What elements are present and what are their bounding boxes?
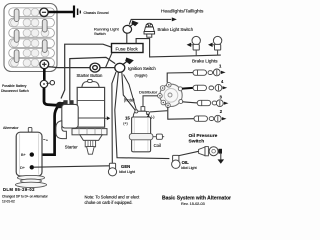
wire ignition switch to GEN idiot light [112, 72, 116, 163]
battery negative terminal [40, 8, 48, 16]
brake light bulb right [208, 36, 222, 55]
svg-text:B+: B+ [21, 153, 27, 157]
spark plug wire 1 [167, 73, 193, 83]
svg-text:Possible Battery: Possible Battery [2, 84, 27, 88]
wire fuse block to brake light switch and brake lights [136, 39, 221, 57]
svg-text:(note): (note) [124, 97, 135, 102]
ignition coil [129, 107, 164, 152]
svg-text:Distributor: Distributor [139, 89, 158, 94]
alternator base pulley [17, 175, 44, 180]
cable junction blob [56, 102, 64, 108]
oil pressure switch [199, 147, 225, 164]
wire solenoid to alternator B+ (thick) [33, 106, 58, 155]
spark plug 4 assembly [193, 84, 222, 91]
wire fuse block to starter button wire [106, 53, 112, 68]
wire ignition switch to coil terminal 15 (second lead) [124, 75, 137, 111]
alternator + mark [43, 138, 45, 140]
svg-text:OIL: OIL [182, 160, 190, 165]
svg-text:Coil: Coil [154, 143, 161, 148]
svg-text:Fuse Block: Fuse Block [116, 47, 139, 52]
wire starter button to ignition switch [100, 67, 116, 69]
chassis ground [74, 6, 80, 18]
wire distributor king lead to coil [143, 96, 158, 108]
svg-text:Brake Lights: Brake Lights [192, 59, 218, 64]
starter spline [85, 140, 95, 146]
wire coil terminal 1 to distributor points [150, 111, 168, 112]
wire fuse block feed (left vertical) [61, 44, 112, 98]
battery positive terminal [40, 60, 49, 69]
running light switch [123, 20, 139, 33]
wire positive cable to starter solenoid [44, 88, 65, 106]
svg-text:Starter: Starter [65, 145, 78, 150]
spark plug 2 assembly [194, 115, 221, 122]
starter solenoid [56, 100, 78, 138]
wire ignition switch to oil pressure circuit [115, 72, 170, 158]
svg-text:(toggle): (toggle) [135, 74, 149, 78]
ignition switch [115, 58, 134, 73]
spark plug 3 assembly [197, 100, 223, 107]
wire battery negative to chassis ground [48, 11, 73, 14]
svg-text:15: 15 [125, 115, 130, 120]
svg-text:Alternator: Alternator [3, 126, 19, 130]
wire OIL light to oil pressure switch [179, 151, 199, 155]
solenoid foot [56, 121, 67, 139]
svg-text:DLM 05-29-02: DLM 05-29-02 [3, 187, 35, 192]
svg-text:Chassis Ground: Chassis Ground [84, 11, 109, 15]
spark plug 1 assembly [193, 69, 220, 76]
wire running light switch to headlights (arrow) [129, 19, 171, 24]
coil mounting band and condenser [129, 134, 153, 140]
wire fuse block to running light switch [126, 33, 128, 43]
svg-text:Starter Button: Starter Button [77, 73, 104, 78]
svg-text:Disconnect Switch: Disconnect Switch [1, 89, 29, 93]
svg-text:D+: D+ [20, 166, 26, 170]
wire ignition feed (second vertical) [70, 57, 115, 100]
OIL idiot light [172, 155, 180, 168]
battery disconnect switch [40, 80, 54, 87]
svg-text:GEN: GEN [121, 164, 130, 169]
svg-text:Switch: Switch [94, 31, 106, 36]
starter motor [72, 79, 110, 154]
starter output arrow [105, 117, 107, 119]
svg-text:(+): (+) [123, 121, 128, 125]
svg-text:choke on carb if equipped.: choke on carb if equipped. [85, 200, 133, 205]
svg-text:Switch: Switch [189, 138, 205, 144]
brake light switch [144, 23, 155, 37]
distributor [158, 83, 183, 108]
svg-text:Rev. 15-02-03: Rev. 15-02-03 [181, 202, 205, 206]
svg-text:Ignition Switch: Ignition Switch [128, 66, 156, 71]
svg-text:Idiot Light: Idiot Light [181, 166, 197, 170]
spark plug wire 2 [168, 107, 194, 120]
svg-text:12-01-02: 12-01-02 [2, 199, 15, 203]
svg-text:Headlights/Taillights: Headlights/Taillights [161, 9, 204, 15]
starter button [90, 63, 100, 72]
wire alternator D+ to GEN idiot light [33, 166, 109, 167]
svg-text:Changed DP to D+ on Alternator: Changed DP to D+ on Alternator [2, 194, 49, 198]
svg-text:(-): (-) [151, 115, 155, 119]
wire battery to starter button [48, 67, 90, 68]
fuse block [112, 44, 144, 53]
spark plug wire 4 (thick) [182, 87, 193, 90]
spark plug wire 3 [182, 102, 197, 103]
starter bell [80, 135, 102, 141]
battery B1 [4, 4, 57, 72]
starter flange [72, 129, 107, 135]
wire battery positive cable down [43, 69, 46, 81]
wire ignition switch to coil terminal 15 [122, 72, 136, 111]
svg-text:Oil Pressure: Oil Pressure [189, 133, 218, 139]
svg-text:Basic System with Alternator: Basic System with Alternator [162, 196, 231, 202]
brake light bulb left [187, 36, 201, 55]
battery cell links [14, 9, 47, 63]
svg-text:Brake Light Switch: Brake Light Switch [158, 27, 194, 32]
svg-text:Idiot Light: Idiot Light [119, 170, 135, 174]
GEN idiot light [108, 163, 116, 176]
